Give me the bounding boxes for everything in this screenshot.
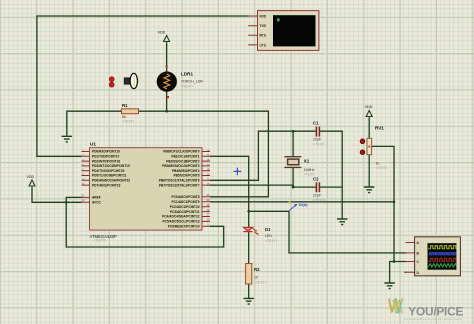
svg-text:PB0/ICP1/CLKO/PCINT0: PB0/ICP1/CLKO/PCINT0 xyxy=(163,150,200,154)
svg-text:R1: R1 xyxy=(122,103,128,108)
svg-text:PC0/ADC0/PCINT8: PC0/ADC0/PCINT8 xyxy=(172,195,200,199)
svg-text:PC6/RESET/PCINT14: PC6/RESET/PCINT14 xyxy=(168,225,200,229)
svg-text:AREF: AREF xyxy=(92,196,101,200)
svg-text:DI(A): DI(A) xyxy=(299,203,309,207)
svg-text:VDD: VDD xyxy=(365,105,373,109)
svg-text:<TEXT>: <TEXT> xyxy=(122,120,135,124)
svg-text:5k: 5k xyxy=(122,115,126,119)
svg-text:X1: X1 xyxy=(304,159,310,164)
svg-text:RTS: RTS xyxy=(260,34,266,38)
svg-text:PB6/TOSC1/XTAL1/PCINT6: PB6/TOSC1/XTAL1/PCINT6 xyxy=(159,179,200,183)
svg-text:<TEXT>: <TEXT> xyxy=(265,239,278,243)
svg-text:PD1/TXD/PCINT17: PD1/TXD/PCINT17 xyxy=(92,155,120,159)
svg-text:TORCH_LDR: TORCH_LDR xyxy=(181,80,203,84)
svg-text:PB1/OC1A/PCINT1: PB1/OC1A/PCINT1 xyxy=(171,155,199,159)
svg-text:PD0/RXD/PCINT16: PD0/RXD/PCINT16 xyxy=(92,150,120,154)
svg-text:AVCC: AVCC xyxy=(92,201,101,205)
svg-text:VDD: VDD xyxy=(27,175,35,179)
svg-text:the social network for electro: the social network for electronic design… xyxy=(404,317,463,321)
svg-text:PB5/SCK/PCINT5: PB5/SCK/PCINT5 xyxy=(173,174,199,178)
svg-text:PC1/ADC1/PCINT9: PC1/ADC1/PCINT9 xyxy=(172,200,200,204)
svg-text:<TEXT>: <TEXT> xyxy=(313,142,326,146)
svg-text:U1: U1 xyxy=(90,142,96,147)
svg-text:PD6/AIN0/OC0A/PCINT22: PD6/AIN0/OC0A/PCINT22 xyxy=(92,179,130,183)
svg-text:<TEXT>: <TEXT> xyxy=(304,172,316,176)
svg-text:<TEXT>: <TEXT> xyxy=(376,166,388,170)
svg-text:C2: C2 xyxy=(313,177,319,182)
svg-text:R2: R2 xyxy=(254,267,260,272)
svg-text:16MHz: 16MHz xyxy=(304,168,315,172)
svg-text:RV1: RV1 xyxy=(375,126,384,131)
svg-text:PC4/ADC4/SDA/PCINT12: PC4/ADC4/SDA/PCINT12 xyxy=(162,215,200,219)
svg-text:TXD: TXD xyxy=(260,24,267,28)
svg-text:PD5/T1/OC0B/PCINT21: PD5/T1/OC0B/PCINT21 xyxy=(92,174,127,178)
svg-text:PB4/MISO/PCINT4: PB4/MISO/PCINT4 xyxy=(172,169,200,173)
svg-text:<TEXT>: <TEXT> xyxy=(254,281,267,285)
svg-text:PB2/SS/OC1B/PCINT2: PB2/SS/OC1B/PCINT2 xyxy=(166,159,200,163)
svg-text:C1: C1 xyxy=(313,121,319,126)
svg-text:CTS: CTS xyxy=(260,43,266,47)
svg-text:PC2/ADC2/PCINT10: PC2/ADC2/PCINT10 xyxy=(170,205,200,209)
svg-text:RXD: RXD xyxy=(260,14,267,18)
svg-text:<TEXT>: <TEXT> xyxy=(93,239,106,243)
svg-text:PD3/INT1/OC2B/PCINT19: PD3/INT1/OC2B/PCINT19 xyxy=(92,164,130,168)
svg-text:LDR1: LDR1 xyxy=(181,72,193,77)
svg-text:VDD: VDD xyxy=(158,31,166,35)
svg-text:1k: 1k xyxy=(376,162,380,166)
svg-text:PC3/ADC3/PCINT11: PC3/ADC3/PCINT11 xyxy=(170,210,200,214)
svg-text:PC5/ADC5/SCL/PCINT13: PC5/ADC5/SCL/PCINT13 xyxy=(162,220,199,224)
svg-text:<TEXT>: <TEXT> xyxy=(313,198,326,202)
svg-text:LED: LED xyxy=(265,234,272,238)
svg-text:22pF: 22pF xyxy=(313,138,322,142)
svg-text:22pF: 22pF xyxy=(313,194,322,198)
svg-text:PB7/TOSC2/XTAL2/PCINT7: PB7/TOSC2/XTAL2/PCINT7 xyxy=(159,183,200,187)
svg-text:10: 10 xyxy=(254,276,258,280)
svg-text:PD2/INT0/PCINT18: PD2/INT0/PCINT18 xyxy=(92,159,120,163)
svg-text:PB3/MOSI/OC2A/PCINT3: PB3/MOSI/OC2A/PCINT3 xyxy=(162,164,199,168)
svg-text:PD4/T0/XCK/PCINT20: PD4/T0/XCK/PCINT20 xyxy=(92,169,125,173)
svg-text:PD7/AIN1/PCINT23: PD7/AIN1/PCINT23 xyxy=(92,183,121,187)
svg-text:D1: D1 xyxy=(265,227,271,232)
svg-text:<TEXT>: <TEXT> xyxy=(181,85,194,89)
